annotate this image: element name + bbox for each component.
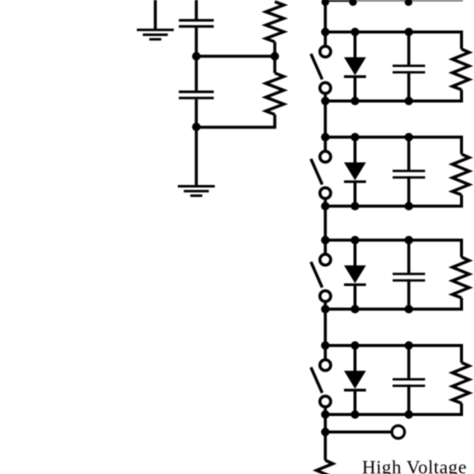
switch SG1 bottom electrode	[320, 83, 331, 94]
switch SG2 arm	[311, 159, 322, 185]
resistor R1s top lead	[460, 32, 463, 49]
diode D4 bottom lead	[354, 390, 357, 414]
top rail diode-column junction	[349, 0, 357, 6]
svg-text:High Voltage: High Voltage	[362, 458, 467, 474]
stage 3 bottom rail bus junction	[321, 305, 330, 314]
stage 1 top rail	[324, 31, 463, 34]
diode D2 top lead	[354, 137, 357, 163]
switch SG2 top electrode	[320, 151, 331, 162]
stage 4 bottom rail bus junction	[321, 410, 330, 419]
resistor R3s	[452, 257, 469, 298]
switch SG1 bottom stub	[324, 94, 327, 101]
wire node A to C2	[195, 56, 198, 90]
resistor R2s	[452, 154, 469, 195]
diode D2 body	[344, 162, 366, 180]
resistor R3s top lead	[460, 240, 463, 257]
top rail bus junction	[321, 0, 329, 6]
switch SG1 top electrode	[320, 46, 331, 57]
resistor R2s top lead	[460, 137, 463, 154]
switch SG2 bottom stub	[324, 199, 327, 206]
output terminal (open circle)	[392, 426, 405, 439]
diode D1 top lead	[354, 32, 357, 58]
top rail cap-column junction	[405, 0, 413, 6]
capacitor C4s	[393, 378, 426, 380]
switch SG4 bottom electrode	[320, 396, 331, 407]
stage 2 top rail cap junction	[405, 133, 414, 142]
switch SG3 arm	[311, 262, 322, 288]
resistor R3s bottom lead	[460, 298, 463, 309]
resistor R2s bottom lead	[460, 195, 463, 206]
resistor R1s	[452, 49, 469, 90]
switch SG3 top stub	[324, 240, 327, 253]
capacitor C3s bottom lead	[407, 279, 410, 309]
switch SG3 bottom electrode	[320, 291, 331, 302]
stage 4 top rail diode junction	[351, 341, 360, 350]
node A junction	[192, 52, 201, 61]
stage 3 top rail bus junction	[321, 236, 330, 245]
ground G2	[195, 127, 198, 186]
stage 3 top rail	[324, 239, 463, 242]
bus wire below stage 1	[324, 101, 327, 137]
stage 2 bottom rail cap junction	[405, 202, 414, 211]
resistor R1 (upper left column)	[266, 2, 284, 42]
resistor R2 (lower left column)	[273, 56, 276, 73]
stage 2 bottom rail diode junction	[351, 202, 360, 211]
switch SG3 bottom stub	[324, 302, 327, 309]
capacitor C1s bottom lead	[407, 71, 410, 101]
switch SG2 top stub	[324, 137, 327, 150]
stage 1 bottom rail	[324, 100, 463, 103]
diode D3 top lead	[354, 240, 357, 266]
stage 2 top rail bus junction	[321, 133, 330, 142]
switch SG1 arm	[311, 54, 322, 80]
switch SG2 bottom electrode	[320, 188, 331, 199]
resistor R1s bottom lead	[460, 90, 463, 101]
capacitor C3s top lead	[407, 240, 410, 275]
stage 4 bottom rail	[324, 413, 463, 416]
resistor R4s bottom lead	[460, 403, 463, 414]
node B junction	[271, 52, 280, 61]
wire C1 to node A	[195, 28, 198, 57]
stage 2 top rail diode junction	[351, 133, 360, 142]
stage 3 top rail cap junction	[405, 236, 414, 245]
stage 1 bottom rail bus junction	[321, 97, 330, 106]
stage 2 bottom rail	[324, 205, 463, 208]
switch SG4 top electrode	[320, 360, 331, 371]
capacitor C2	[179, 91, 214, 94]
switch SG1 top stub	[324, 32, 327, 45]
bus wire below stage 2	[324, 206, 327, 240]
ground G1 (top-left)	[154, 0, 157, 30]
stage 4 top rail bus junction	[321, 341, 330, 350]
capacitor C3s	[393, 273, 426, 275]
diode D4 top lead	[354, 346, 357, 372]
diode D1 body	[344, 57, 366, 75]
output node junction	[321, 428, 330, 437]
stage 1 bottom rail cap junction	[405, 97, 414, 106]
top rail (cropped stage above)	[324, 0, 356, 2]
stage 1 top rail bus junction	[321, 28, 330, 37]
node C junction	[192, 123, 201, 131]
wire node A - node B	[196, 55, 274, 58]
diode D3 bottom lead	[354, 285, 357, 309]
stage 4 bottom rail cap junction	[405, 410, 414, 419]
stage 1 top rail cap junction	[405, 28, 414, 37]
switch SG4 top stub	[324, 346, 327, 359]
stage 3 bottom rail	[324, 308, 463, 311]
resistor R4s top lead	[460, 346, 463, 363]
stage 2 bottom rail bus junction	[321, 202, 330, 211]
capacitor C1s top lead	[407, 32, 410, 67]
capacitor C1 lead (top)	[195, 0, 198, 19]
diode D3 body	[344, 265, 366, 283]
resistor R5 (bottom, cropped)	[317, 460, 333, 474]
switch SG4 bottom stub	[324, 408, 327, 415]
capacitor C2s	[393, 170, 426, 172]
output wire	[325, 431, 391, 434]
capacitor C2s top lead	[407, 137, 410, 172]
stage 3 bottom rail diode junction	[351, 305, 360, 314]
stage 2 top rail	[324, 136, 463, 139]
capacitor C2s bottom lead	[407, 176, 410, 206]
stage 4 top rail	[324, 344, 463, 347]
switch SG3 top electrode	[320, 254, 331, 265]
stage 1 bottom rail diode junction	[351, 97, 360, 106]
bus wire below stage 3	[324, 309, 327, 345]
stage 4 top rail cap junction	[405, 341, 414, 350]
diode D1 bottom lead	[354, 77, 357, 101]
wire R2 bottom elbow	[196, 115, 274, 128]
capacitor C1	[179, 19, 214, 22]
switch SG4 arm	[311, 367, 322, 393]
bus wire top to stage 1	[324, 1, 327, 33]
resistor R4s	[452, 363, 469, 404]
stage 4 bottom rail diode junction	[351, 410, 360, 419]
diode D2 bottom lead	[354, 182, 357, 206]
wire R1 to node B	[273, 42, 276, 56]
capacitor C4s top lead	[407, 346, 410, 381]
bus wire below stage 4	[324, 415, 327, 461]
diode D4 body	[344, 371, 366, 389]
stage 3 top rail diode junction	[351, 236, 360, 245]
capacitor C4s bottom lead	[407, 385, 410, 415]
capacitor C1s	[393, 65, 426, 67]
stage 1 top rail diode junction	[351, 28, 360, 37]
wire C2 to node C	[195, 99, 198, 127]
stage 3 bottom rail cap junction	[405, 305, 414, 314]
